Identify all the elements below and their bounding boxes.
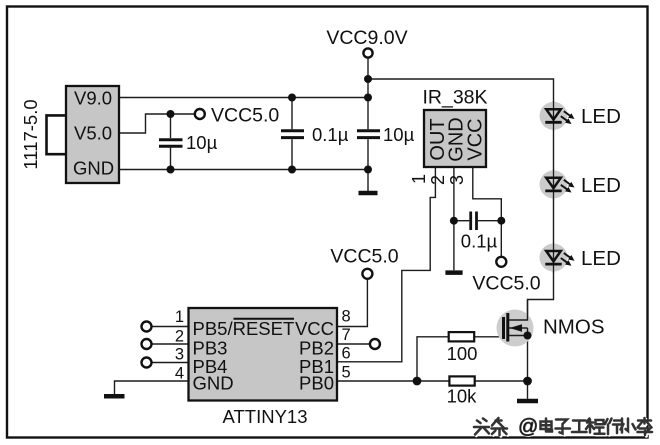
node VCC9 rail at C2 — [288, 94, 296, 102]
terminal VCC5.0 top-left — [195, 109, 205, 119]
svg-text:LED: LED — [581, 174, 621, 197]
wire capacitor C3 stubs — [367, 98, 369, 130]
node NMOS source dot — [524, 332, 532, 340]
svg-text:PB0: PB0 — [299, 373, 334, 394]
wire capacitor C4 stubs — [454, 220, 469, 222]
wire ATTINY pin3 — [152, 362, 189, 364]
wire ATTINY pin4 to ground — [115, 381, 189, 394]
LED D2 — [540, 169, 577, 199]
svg-text:0.1µ: 0.1µ — [461, 231, 498, 252]
svg-text:2: 2 — [428, 175, 448, 185]
wire IR VCC pin3 to node — [473, 167, 502, 257]
wire PB0 rail to 10k and NMOS source node — [337, 380, 449, 382]
terminal pin3 — [142, 358, 152, 368]
wire IR GND pin2 down — [453, 167, 455, 270]
node GND rail at C3 — [364, 166, 372, 174]
transistor Q1 NMOS — [497, 300, 534, 347]
wire VCC9 rail regulator V9.0 to cap node — [119, 97, 368, 99]
svg-text:1: 1 — [175, 308, 184, 326]
ground IR pin2 — [445, 270, 462, 275]
capacitor C3 10u — [357, 131, 380, 138]
wire VCC9 vertical from terminal to rail — [367, 58, 369, 98]
svg-text:1: 1 — [409, 174, 429, 184]
wire R1 right to gate — [474, 336, 503, 338]
node IR GND at C4 — [450, 217, 458, 225]
capacitor C4 0.1u horizontal — [471, 212, 477, 231]
wire capacitor C1 stubs — [170, 114, 172, 138]
svg-text:VCC: VCC — [465, 118, 487, 160]
svg-text:10µ: 10µ — [186, 132, 218, 153]
svg-text:10k: 10k — [447, 386, 478, 407]
wire capacitor C2 stubs — [291, 98, 293, 130]
ground ATTINY pin4 — [104, 394, 125, 399]
node VCC9 rail at C3 — [364, 94, 372, 102]
svg-text:3: 3 — [175, 346, 184, 364]
svg-text:4: 4 — [175, 365, 184, 383]
svg-text:10µ: 10µ — [383, 124, 415, 145]
svg-text:2: 2 — [175, 328, 184, 346]
capacitor C1 10u — [159, 140, 183, 147]
svg-text:V5.0: V5.0 — [74, 123, 112, 144]
svg-text:VCC9.0V: VCC9.0V — [326, 27, 407, 49]
wire ATTINY pin2 — [152, 343, 189, 345]
terminal pin1 — [142, 322, 152, 332]
wire IR OUT pin1 to ATTINY PB1 — [337, 167, 435, 362]
svg-text:8: 8 — [342, 308, 351, 326]
svg-text:100: 100 — [447, 343, 478, 364]
LED D1 — [540, 101, 577, 131]
watermark 头条@电子工程师小李 — [474, 418, 653, 436]
svg-text:VCC5.0: VCC5.0 — [330, 246, 398, 268]
svg-text:LED: LED — [581, 247, 621, 270]
svg-text:5: 5 — [342, 364, 351, 382]
svg-text:GND: GND — [193, 373, 234, 394]
svg-text:1117-5.0: 1117-5.0 — [20, 99, 41, 169]
regulator U2 1117-5.0 body — [47, 86, 120, 183]
svg-text:IR_38K: IR_38K — [422, 87, 487, 109]
resistor R1 100 — [449, 332, 475, 341]
ground NMOS source — [517, 399, 538, 404]
terminal pin2 — [142, 339, 152, 349]
node R1/R2 left — [413, 377, 422, 386]
wire VCC9 to LED column — [368, 79, 554, 320]
svg-text:GND: GND — [73, 158, 114, 179]
svg-text:0.1µ: 0.1µ — [312, 124, 349, 145]
wire R1 left leg — [417, 337, 449, 381]
wire ATTINY pin7 to terminal — [337, 343, 370, 345]
wire ground stub below C3 — [367, 170, 369, 193]
svg-text:VCC5.0: VCC5.0 — [211, 105, 279, 127]
svg-text:VCC: VCC — [295, 318, 334, 339]
terminal VCC5.0 at IR — [496, 257, 506, 267]
node NMOS source / R2 right — [523, 377, 532, 386]
terminal VCC9.0V — [363, 48, 372, 57]
wire NMOS source to ground — [527, 336, 529, 399]
svg-text:7: 7 — [342, 326, 351, 344]
LED D3 — [540, 243, 577, 273]
node GND rail at C1 — [167, 166, 175, 174]
terminal VCC5.0 at ATTINY pin8 — [362, 269, 372, 279]
ATTINY13 U1 body — [189, 308, 338, 401]
ground below C3 — [359, 191, 378, 196]
IR receiver U3 IR_38K body — [424, 110, 486, 167]
node V5 at C1 — [167, 110, 175, 118]
svg-text:NMOS: NMOS — [543, 315, 605, 338]
svg-text:LED: LED — [581, 105, 621, 128]
wire ATTINY pin8 to VCC5 terminal — [337, 279, 367, 327]
wire GND rail — [119, 169, 368, 171]
svg-text:PB5/RESET: PB5/RESET — [193, 318, 295, 339]
svg-text:@: @ — [518, 416, 538, 438]
svg-text:3: 3 — [447, 175, 467, 185]
terminal ATTINY pin7 — [370, 339, 380, 349]
svg-text:ATTINY13: ATTINY13 — [223, 406, 308, 427]
svg-text:V9.0: V9.0 — [74, 88, 112, 109]
resistor R2 10k — [449, 376, 474, 385]
node VCC9 branch to LEDs — [364, 75, 372, 83]
wire V5.0 from regulator to VCC5 node — [119, 114, 195, 133]
svg-text:VCC5.0: VCC5.0 — [472, 273, 540, 295]
svg-text:6: 6 — [342, 345, 351, 363]
node GND rail at C2 — [288, 166, 296, 174]
wire ATTINY pin1 — [152, 326, 189, 328]
node IR VCC at C4 — [497, 217, 505, 225]
capacitor C2 0.1u — [281, 131, 304, 138]
